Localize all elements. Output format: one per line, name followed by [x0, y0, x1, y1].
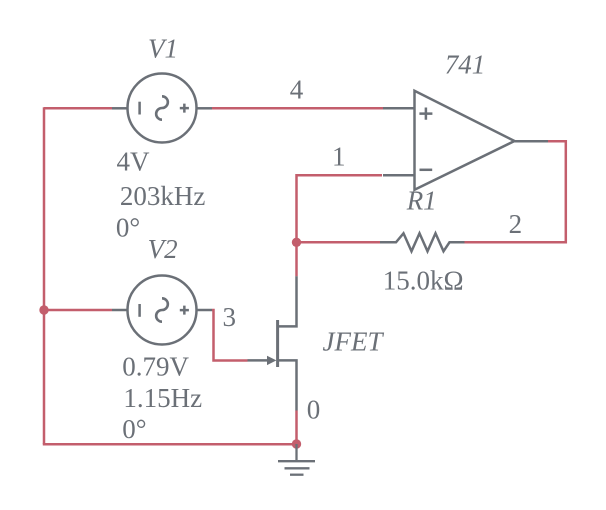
wire left rail top: V1 left to corner: [44, 107, 112, 110]
wire V1 right to op-amp + input (node 4): [212, 107, 383, 110]
wire junction up to op-amp - input (node 1): [297, 175, 383, 243]
wire bottom rail: [43, 443, 297, 446]
svg-text:4V: 4V: [117, 147, 151, 177]
node junction at feedback: [292, 238, 301, 247]
svg-text:0.79V: 0.79V: [122, 352, 189, 382]
transistor Q1 JFET: [248, 276, 297, 410]
svg-text:741: 741: [445, 50, 486, 80]
voltage source V2: [112, 276, 212, 345]
svg-text:0°: 0°: [116, 213, 140, 243]
ground: [278, 444, 315, 475]
svg-text:V2: V2: [148, 234, 178, 264]
svg-text:203kHz: 203kHz: [120, 181, 205, 211]
node junction at ground: [292, 439, 301, 448]
wire V2 left: [44, 309, 112, 312]
svg-text:2: 2: [509, 209, 522, 239]
svg-text:3: 3: [223, 302, 237, 332]
svg-text:R1: R1: [406, 185, 437, 215]
svg-text:1.15Hz: 1.15Hz: [123, 383, 202, 413]
wire JFET source to ground junction (node 0): [295, 411, 298, 445]
svg-text:0°: 0°: [122, 414, 146, 444]
wire R1 left to junction: [297, 241, 382, 244]
voltage source V1: [112, 74, 212, 143]
svg-text:4: 4: [290, 75, 304, 105]
wire V2 right to JFET gate (node 3): [212, 310, 248, 361]
resistor R1: [380, 233, 465, 251]
wire junction down to JFET drain: [295, 242, 298, 276]
svg-text:V1: V1: [148, 34, 178, 64]
svg-text:15.0kΩ: 15.0kΩ: [383, 265, 464, 295]
wire op-amp output down to feedback (node 2): [465, 141, 566, 242]
svg-text:1: 1: [332, 141, 346, 171]
node junction on left rail: [39, 305, 48, 314]
wire left rail vertical: [43, 107, 46, 444]
svg-text:0: 0: [307, 395, 321, 425]
op-amp U1 741: [383, 91, 548, 190]
svg-text:JFET: JFET: [323, 326, 385, 356]
